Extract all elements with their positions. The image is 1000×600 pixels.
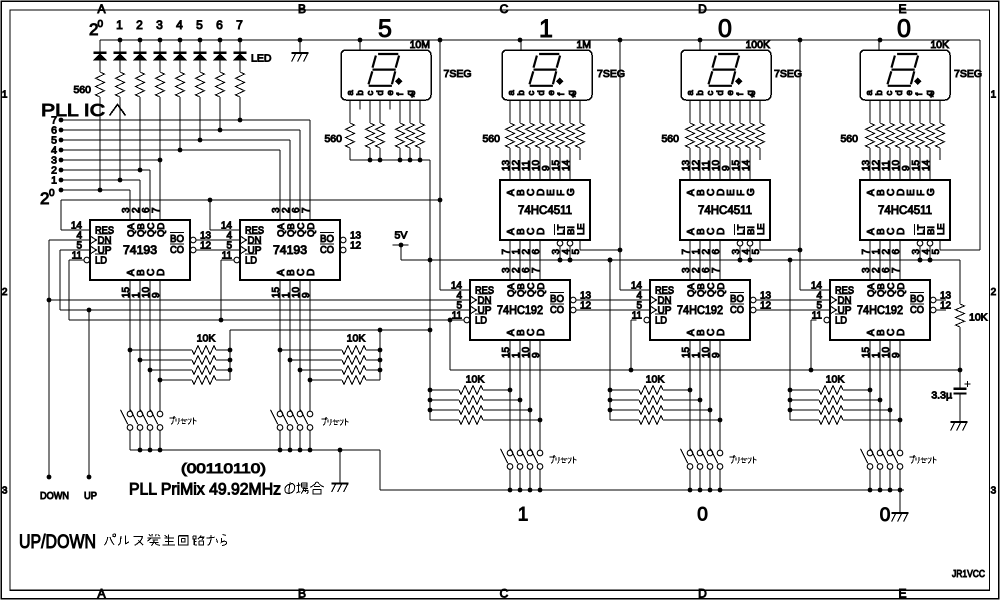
resistor 560 column 8 bbox=[236, 72, 245, 97]
svg-text:CO: CO bbox=[320, 244, 334, 256]
junction dots where LED columns meet PLL lines bbox=[98, 188, 103, 193]
svg-text:74193: 74193 bbox=[123, 245, 157, 257]
svg-text:D: D bbox=[536, 329, 547, 336]
wire: 74HC192 preset pins down x=690 bbox=[689, 340, 691, 450]
wire: UP input bus to U1 UP and 74HC192 U3 UP bbox=[60, 249, 90, 251]
wire: 74HC192 preset pins down x=870 bbox=[869, 340, 871, 450]
svg-text:D: D bbox=[536, 228, 547, 235]
svg-text:74HC192: 74HC192 bbox=[857, 305, 903, 317]
U4 pin LD(11) label + bubble bbox=[644, 317, 650, 323]
DS1 unconnected pins b,e stubs bbox=[359, 100, 361, 110]
U1 pin LD(11) label + bubble bbox=[84, 257, 90, 263]
svg-text:7SEG: 7SEG bbox=[774, 68, 802, 80]
svg-text:5: 5 bbox=[196, 18, 203, 32]
U1 pin UP(5) label + clock wedge bbox=[90, 246, 97, 254]
preset switch bank SW1 (4 switches) bbox=[127, 411, 133, 417]
svg-text:74HC4511: 74HC4511 bbox=[518, 205, 572, 217]
svg-text:0: 0 bbox=[697, 505, 708, 526]
wire: top ground bus y=40 bbox=[100, 39, 980, 41]
svg-text:1: 1 bbox=[2, 90, 8, 101]
ground symbol under capacitor bbox=[951, 421, 968, 423]
svg-text:5V: 5V bbox=[395, 230, 408, 242]
svg-text:100K: 100K bbox=[745, 39, 770, 51]
wire: U5 LD riser to LD bus y=370 bbox=[811, 319, 816, 321]
svg-text:1: 1 bbox=[116, 18, 123, 32]
U7 LT BI pin bubbles bbox=[737, 240, 743, 246]
U4 pin UP(5) label + clock wedge bbox=[650, 306, 657, 314]
svg-text:D: D bbox=[698, 587, 707, 600]
svg-text:3.3µ: 3.3µ bbox=[931, 390, 952, 402]
svg-text:74HC4511: 74HC4511 bbox=[698, 205, 752, 217]
resistor 560 column 7 bbox=[216, 72, 225, 97]
svg-text:2: 2 bbox=[136, 18, 143, 32]
U3 pin UP(5) label + clock wedge bbox=[470, 306, 477, 314]
U2 pin BO(13) / CO(12) labels + bubbles bbox=[340, 237, 346, 243]
U3 pin LD(11) label + bubble bbox=[464, 317, 470, 323]
wire: LED column 6 to PLL line bbox=[199, 97, 201, 140]
wire: PLL net 4 horizontal line y=150 bbox=[61, 149, 280, 151]
label preset SW2 bbox=[321, 418, 348, 426]
svg-text:7: 7 bbox=[711, 267, 722, 273]
7-segment display DS3 body bbox=[681, 50, 771, 100]
svg-text:E: E bbox=[898, 2, 906, 16]
wire: U6 LE to ground riser x=620 bbox=[579, 240, 581, 250]
svg-text:0: 0 bbox=[49, 188, 55, 199]
wire: U2 RES pin 14 bbox=[209, 200, 211, 230]
svg-text:2: 2 bbox=[2, 287, 8, 298]
resistor 560 column 2 bbox=[116, 72, 125, 97]
counter IC U3 74HC192 body bbox=[470, 280, 570, 340]
svg-text:QD: QD bbox=[536, 283, 547, 297]
svg-text:5: 5 bbox=[378, 15, 392, 43]
wire: 4511 LT,BI pins to 5V bus x=920 bbox=[919, 246, 921, 260]
wire: LED column 4 to PLL line bbox=[159, 97, 161, 160]
svg-text:560: 560 bbox=[324, 133, 342, 145]
svg-text:D: D bbox=[716, 329, 727, 336]
svg-text:7: 7 bbox=[301, 207, 312, 213]
decoder IC U7 74HC4511 body bbox=[680, 180, 770, 240]
svg-text:D: D bbox=[156, 269, 167, 276]
decoder IC U6 74HC4511 body bbox=[500, 180, 590, 240]
svg-text:CO: CO bbox=[550, 304, 564, 316]
U1 pin BO(13) / CO(12) labels + bubbles bbox=[190, 237, 196, 243]
svg-text:*: * bbox=[928, 93, 940, 98]
svg-text:3: 3 bbox=[2, 486, 8, 497]
svg-text:C: C bbox=[500, 587, 509, 600]
svg-text:10K: 10K bbox=[347, 333, 366, 345]
svg-text:14: 14 bbox=[741, 159, 752, 171]
svg-text:LD: LD bbox=[835, 315, 847, 327]
svg-text:(00110110): (00110110) bbox=[181, 460, 266, 476]
LED D1 (bit 0) bbox=[99, 40, 101, 52]
wire: U4 LD riser to LD bus y=370 bbox=[631, 319, 636, 321]
svg-text:1: 1 bbox=[518, 505, 529, 526]
wire: PLL net 1 horizontal line y=180 bbox=[61, 179, 140, 181]
svg-text:2: 2 bbox=[991, 287, 997, 298]
wire: LED column 1 to PLL line bbox=[99, 97, 101, 190]
svg-text:QD: QD bbox=[156, 223, 167, 237]
svg-text:7SEG: 7SEG bbox=[444, 68, 472, 80]
wire: U4 BO->U5 DN, CO->U5 UP bbox=[757, 299, 830, 301]
preset switch bank at x=690 bbox=[687, 450, 693, 456]
wire: preset bus down to lower ground bus bbox=[379, 450, 381, 490]
wire: 4511 BCD inputs down to 74HC192 outputs x=690 bbox=[689, 240, 691, 280]
svg-text:LD: LD bbox=[245, 255, 257, 267]
svg-text:7: 7 bbox=[151, 207, 162, 213]
svg-text:LED: LED bbox=[251, 53, 272, 65]
svg-text:CO: CO bbox=[730, 304, 744, 316]
resistor 10K right pull bbox=[959, 260, 961, 304]
wire: LED column 2 to PLL line bbox=[119, 97, 121, 180]
svg-text:CO: CO bbox=[170, 244, 184, 256]
resistor 560 column 3 bbox=[136, 72, 145, 97]
preset switch bank at x=870 bbox=[867, 450, 873, 456]
svg-text:7: 7 bbox=[531, 267, 542, 273]
wire: DS3 common anode stub bbox=[699, 40, 701, 50]
svg-text:560: 560 bbox=[482, 133, 500, 145]
wire: LED column 3 to PLL line bbox=[139, 97, 141, 170]
7-segment display DS2 body bbox=[502, 50, 592, 100]
U5 pin DN(4) label + clock wedge bbox=[830, 296, 837, 304]
svg-text:7SEG: 7SEG bbox=[954, 68, 982, 80]
wire: U1 preset pins A-D down to network bbox=[129, 280, 131, 411]
svg-text:*: * bbox=[749, 93, 761, 98]
wire: DS4 common anode stub bbox=[878, 40, 880, 50]
svg-text:1: 1 bbox=[991, 90, 997, 101]
wire: DS2 common anode stub bbox=[520, 40, 522, 50]
svg-text:14: 14 bbox=[561, 159, 572, 171]
rail x=430 handled above (shared with DS1) bbox=[608, 258, 613, 263]
U6 LT BI pin bubbles bbox=[557, 240, 563, 246]
LED D2 (bit 1) bbox=[119, 40, 121, 52]
svg-text:LD: LD bbox=[475, 315, 487, 327]
resistor 560 column 5 bbox=[176, 72, 185, 97]
svg-text:74HC192: 74HC192 bbox=[497, 305, 543, 317]
preset switch bank SW2 bbox=[277, 411, 283, 417]
wire: ground riser x=980 (top bus right end) bbox=[979, 40, 981, 250]
wire: U5 BO CO stubs bbox=[937, 299, 946, 301]
svg-text:B: B bbox=[298, 587, 306, 600]
U5 pin UP(5) label + clock wedge bbox=[830, 306, 837, 314]
wire: LED column 7 to PLL line bbox=[219, 97, 221, 130]
wire: RA5 rail x=790 bbox=[789, 260, 791, 420]
svg-text:74HC192: 74HC192 bbox=[677, 305, 723, 317]
svg-text:LE: LE bbox=[936, 223, 947, 235]
wire: ground riser x=620 to U4 RES bbox=[619, 40, 621, 290]
wire: RA4 rail x=610 bbox=[609, 260, 611, 420]
svg-text:QD: QD bbox=[716, 283, 727, 297]
svg-text:0: 0 bbox=[897, 15, 911, 43]
svg-text:LD: LD bbox=[95, 255, 107, 267]
U8 LT BI pin bubbles bbox=[917, 240, 923, 246]
counter IC U4 74HC192 body bbox=[650, 280, 750, 340]
wire: RA1 common rail to 5V bus y=330 bbox=[229, 330, 231, 380]
wire: RA2 common rail to 5V bus y=330 bbox=[379, 330, 381, 380]
svg-text:12: 12 bbox=[350, 241, 362, 252]
svg-text:C: C bbox=[500, 2, 509, 16]
svg-text:560: 560 bbox=[840, 133, 858, 145]
wire: 4511 BCD inputs down to 74HC192 outputs x=870 bbox=[869, 240, 871, 280]
LED D7 (bit 6) bbox=[219, 40, 221, 52]
svg-text:JR1VCC: JR1VCC bbox=[952, 568, 985, 580]
wire: risers from PLL lines down to 74193 QA-QD pins bbox=[129, 190, 131, 220]
svg-text:4: 4 bbox=[176, 18, 183, 32]
U2 pin DN(4) label + clock wedge bbox=[240, 236, 247, 244]
terminal dot UP bbox=[87, 475, 92, 480]
wire: PLL net 6 horizontal line y=130 bbox=[61, 129, 300, 131]
svg-text:74193: 74193 bbox=[273, 245, 307, 257]
wire: 4511 LT,BI pins to 5V bus x=560 bbox=[559, 246, 561, 260]
wire: PLL net 2**0 horizontal line y=190 bbox=[61, 189, 130, 191]
wire: U1 BO(13) to U2 DN(4) bbox=[197, 239, 240, 241]
LED D3 (bit 2) bbox=[139, 40, 141, 52]
wire: lower ground bus y=490 bbox=[380, 489, 904, 491]
wire: U2 preset pins A-D down to network bbox=[279, 280, 281, 411]
svg-text:14: 14 bbox=[921, 159, 932, 171]
resistor 560 column 1 bbox=[96, 72, 105, 97]
decoder IC U8 74HC4511 body bbox=[860, 180, 950, 240]
counter IC U2 74193 body bbox=[240, 220, 340, 280]
wire: RA3 rail x=430 bbox=[429, 260, 431, 420]
resistor 560 column 4 bbox=[156, 72, 165, 97]
wire: PLL net 7 horizontal line y=120 bbox=[61, 119, 310, 121]
U2 pin UP(5) label + clock wedge bbox=[240, 246, 247, 254]
ground symbol at lower bus bbox=[899, 490, 901, 513]
svg-text:DOWN: DOWN bbox=[40, 491, 69, 502]
wire: PLL net 2 horizontal line y=170 bbox=[61, 169, 150, 171]
counter IC U5 74HC192 body bbox=[830, 280, 930, 340]
wire: U7 LE to ground riser x=800 bbox=[759, 240, 761, 250]
svg-text:D: D bbox=[698, 2, 707, 16]
svg-text:A: A bbox=[97, 2, 105, 16]
wire: LED column 8 to PLL line bbox=[239, 97, 241, 120]
wire: 4511 BCD inputs down to 74HC192 outputs x=510 bbox=[509, 240, 511, 280]
svg-text:3: 3 bbox=[156, 18, 163, 32]
svg-text:LD: LD bbox=[655, 315, 667, 327]
counter IC U1 74193 body bbox=[90, 220, 190, 280]
U4 pin DN(4) label + clock wedge bbox=[650, 296, 657, 304]
wire: 74HC192 preset pins down x=510 bbox=[509, 340, 511, 450]
wire: LD bus y=370 bbox=[449, 320, 451, 370]
DS2 digit-8 artwork bbox=[530, 54, 560, 86]
svg-text:10K: 10K bbox=[197, 333, 216, 345]
svg-text:10K: 10K bbox=[969, 312, 988, 324]
wire: ground riser x=440 to U3 RES bbox=[439, 40, 441, 290]
wire: LD bus from U1 LD(11) to 74HC192 U3 LD bbox=[69, 259, 84, 261]
svg-text:560: 560 bbox=[661, 133, 679, 145]
svg-text:7: 7 bbox=[236, 18, 243, 32]
svg-text:3: 3 bbox=[991, 486, 997, 497]
wire: PLL net 5 horizontal line y=140 bbox=[61, 139, 290, 141]
svg-text:*: * bbox=[570, 93, 582, 98]
svg-text:10K: 10K bbox=[930, 39, 949, 51]
svg-text:UP: UP bbox=[84, 491, 97, 502]
svg-text:0: 0 bbox=[98, 19, 104, 30]
svg-text:1: 1 bbox=[51, 175, 57, 187]
svg-text:D: D bbox=[306, 269, 317, 276]
svg-text:6: 6 bbox=[216, 18, 223, 32]
terminal dot DOWN bbox=[47, 475, 52, 480]
wire: PLL net 3 horizontal line y=160 bbox=[61, 159, 160, 161]
wire: LED column 5 to PLL line bbox=[179, 97, 181, 150]
wire: DS1 common anode stub bbox=[359, 40, 361, 50]
U3 pin BO(13) / CO(12) labels + bubbles bbox=[570, 297, 576, 303]
LED D4 (bit 3) bbox=[159, 40, 161, 52]
svg-text:PLL PriMix 49.92MHz: PLL PriMix 49.92MHz bbox=[129, 481, 281, 499]
ground symbol on top bus bbox=[299, 40, 301, 53]
U2 pin LD(11) label + bubble bbox=[234, 257, 240, 263]
wire: ground bus y=200 (74193 RES net) bbox=[61, 199, 440, 201]
wire: ground riser x=800 to U5 RES bbox=[799, 40, 801, 290]
ground symbol at preset bus bbox=[339, 450, 341, 483]
svg-text:7SEG: 7SEG bbox=[597, 68, 625, 80]
junction dots on top bus bbox=[118, 38, 123, 43]
svg-text:G: G bbox=[746, 188, 757, 196]
U4 pin BO(13) / CO(12) labels + bubbles bbox=[750, 297, 756, 303]
svg-text:10M: 10M bbox=[410, 39, 430, 51]
preset switch bank at x=510 bbox=[507, 450, 513, 456]
LED D8 (bit 7) bbox=[239, 40, 241, 52]
U5 pin BO(13) / CO(12) labels + bubbles bbox=[930, 297, 936, 303]
svg-text:D: D bbox=[896, 228, 907, 235]
svg-text:LE: LE bbox=[756, 223, 767, 235]
resistor 560 column 6 bbox=[196, 72, 205, 97]
LED D5 (bit 4) bbox=[179, 40, 181, 52]
svg-text:QD: QD bbox=[306, 223, 317, 237]
svg-text:7: 7 bbox=[891, 267, 902, 273]
svg-text:1: 1 bbox=[539, 15, 553, 43]
wire: 5V bus y=260 bbox=[400, 245, 402, 260]
svg-text:CO: CO bbox=[910, 304, 924, 316]
DS3 digit-8 artwork bbox=[709, 54, 739, 86]
7-segment display DS4 body bbox=[860, 50, 950, 100]
DS1 digit-8 artwork bbox=[369, 54, 399, 86]
svg-text:QD: QD bbox=[896, 283, 907, 297]
svg-text:560: 560 bbox=[73, 84, 91, 96]
wire: U2 LD(11) riser to LD bus bbox=[221, 259, 234, 261]
wire: 4511 LT,BI pins to 5V bus x=740 bbox=[739, 246, 741, 260]
svg-text:D: D bbox=[896, 329, 907, 336]
wire: U3 LD bubble link bbox=[450, 319, 464, 321]
wire: DS1 resistor common bus to 5V bbox=[350, 159, 430, 161]
wire: U1 CO(12) to U2 UP(5) bbox=[197, 249, 240, 251]
wire: U3 BO->U4 DN, CO->U4 UP bbox=[577, 299, 650, 301]
wire: U8 LE to ground riser x=980 bbox=[939, 240, 941, 250]
wire: DOWN input bus to U1 DN and 74HC192 U3 DN bbox=[49, 239, 90, 241]
svg-text:LE: LE bbox=[576, 223, 587, 235]
label preset SW1 bbox=[169, 417, 196, 425]
svg-text:G: G bbox=[926, 188, 937, 196]
svg-text:G: G bbox=[566, 188, 577, 196]
svg-text:0: 0 bbox=[880, 505, 891, 526]
svg-text:10K: 10K bbox=[826, 374, 845, 386]
svg-text:E: E bbox=[898, 587, 906, 600]
U1 pin DN(4) label + clock wedge bbox=[90, 236, 97, 244]
svg-text:UP/DOWN: UP/DOWN bbox=[19, 532, 96, 553]
7-segment display DS1 body bbox=[341, 50, 431, 100]
svg-text:A: A bbox=[97, 587, 105, 600]
svg-text:10K: 10K bbox=[646, 374, 665, 386]
wire: U1 RES pin 14 bbox=[60, 200, 62, 230]
svg-text:1M: 1M bbox=[576, 39, 591, 51]
svg-text:74HC4511: 74HC4511 bbox=[878, 205, 932, 217]
U3 pin DN(4) label + clock wedge bbox=[470, 296, 477, 304]
LED D6 (bit 5) bbox=[199, 40, 201, 52]
svg-text:*: * bbox=[409, 93, 421, 98]
U5 pin LD(11) label + bubble bbox=[824, 317, 830, 323]
wire: preset common bus y=450 bbox=[130, 449, 380, 451]
svg-text:10K: 10K bbox=[466, 374, 485, 386]
wire: 5V vertical x=430 bbox=[429, 160, 431, 420]
DS4 digit-8 artwork bbox=[888, 54, 918, 86]
svg-text:0: 0 bbox=[718, 15, 732, 43]
svg-text:D: D bbox=[716, 228, 727, 235]
svg-text:B: B bbox=[298, 2, 306, 16]
